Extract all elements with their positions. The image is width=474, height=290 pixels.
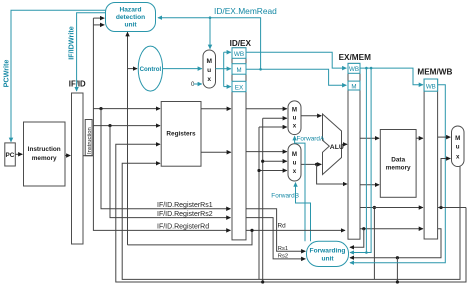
wire IF/ID.RegisterRs2 [155,217,230,219]
wire ForwardB from forwarding unit [296,183,311,242]
wire hazard input lower [93,24,104,26]
wire instruction bus vertical [92,18,94,156]
svg-text:IF/IDWrite: IF/IDWrite [66,26,75,59]
wire ALU result to EX/MEM [342,143,348,145]
svg-text:unit: unit [124,22,137,29]
wire data memory read data to MEM/WB [416,137,423,139]
instruction memory [24,122,66,186]
wire stall mux to WB/M/EX bracket [216,68,224,70]
svg-text:IF/ID.RegisterRs2: IF/ID.RegisterRs2 [157,211,213,218]
wire EX/MEM RegWrite to forwarding unit [365,68,367,252]
svg-text:Control: Control [140,66,162,73]
junction EX/MEM RegWrite joins WB feedback [365,251,368,254]
svg-text:Hazard: Hazard [120,7,142,14]
junction final mux input tap [439,206,442,209]
junction forward 2 on write back bus [261,280,264,283]
wire ID/EX WB to EX/MEM WB [246,52,346,68]
wire opcode into control [128,68,138,70]
svg-text:Rs2: Rs2 [278,254,288,260]
junction MemRead on M line [259,68,262,71]
svg-text:x: x [207,76,211,83]
junction EX/MEM Rd branch [362,227,365,230]
junction second teal tap [370,67,373,70]
forwarding unit [307,241,349,266]
ALU [323,114,344,175]
wire forward bus 1 vertical [258,127,260,279]
MEM/WB WB box [424,79,438,91]
wire ID/EX read data 2 to mux B [246,151,287,153]
wire B value to EX/MEM write data [317,164,347,184]
PC register [5,143,16,166]
IF/ID pipeline register [72,93,84,244]
svg-text:WB: WB [234,51,244,58]
svg-text:u: u [456,144,460,151]
junction rs2 [108,124,111,127]
junction write register branch [396,256,399,259]
svg-text:Instruction: Instruction [28,146,61,153]
wire mux A to ALU [301,115,321,117]
wire bracket to M [224,68,231,70]
EX/MEM pipeline register [348,63,360,239]
wire MEM/WB ALU result out [438,207,466,209]
wire EX/MEM WB to MEM/WB WB [360,68,423,85]
wire ID/EX M to EX/MEM M [246,69,346,85]
junction B value tap [315,163,318,166]
wire write register feedback [116,144,466,282]
svg-text:ForwardB: ForwardB [271,192,299,199]
wire registers read data 1 to ID/EX [201,108,231,110]
wire EX/MEM Rd to MEM/WB [360,228,423,230]
svg-text:Rd: Rd [278,223,287,230]
svg-text:detection: detection [116,14,145,21]
wire PCWrite [11,10,106,142]
ID/EX EX box [232,81,246,91]
wire mux B to ALU [301,163,321,165]
wire control to stall mux [163,68,202,70]
svg-text:x: x [456,154,460,161]
EX/MEM WB box [348,63,360,73]
ID/EX pipeline register [232,48,246,240]
wire forward 1 to mux A input 3 [259,126,287,128]
wire EX/MEM ALU result to data memory address [360,137,379,139]
ID/EX WB box [232,48,246,59]
wire MEM/WB Rd to forwarding unit [350,229,441,258]
svg-text:IF/ID.RegisterRs1: IF/ID.RegisterRs1 [157,202,213,209]
wire bracket vertical [223,52,225,86]
svg-text:Instruction: Instruction [87,127,93,154]
wire zero into mux [194,83,202,85]
wire rs1 down to IF/ID.RegisterRs1 row [101,109,155,209]
svg-text:Forwarding: Forwarding [310,247,346,254]
svg-text:ForwardA: ForwardA [297,135,325,142]
svg-text:ALU: ALU [330,144,344,151]
wire EX/MEM ALU result to MEM/WB [360,207,423,209]
wire forward 1 to mux B input 3 [259,170,287,172]
wire read register 1 [93,108,160,110]
hazard detection unit [106,3,156,32]
wire second teal to forwarding unit [350,68,371,252]
svg-text:M: M [351,83,356,90]
junction EX/MEM RegWrite tap [365,67,368,70]
wire MEM/WB read data to final mux [438,136,451,138]
stall mux [203,50,216,88]
junction forward 1 at mux B branch [257,169,260,172]
forwarding mux A [288,101,301,135]
wire IF/IDWrite [77,13,106,91]
wire write register branch down [396,258,398,282]
svg-text:memory: memory [386,165,411,172]
svg-text:IF/ID: IF/ID [69,79,86,88]
wire read register 2 [93,125,160,127]
wire EX/MEM value tap down [373,208,375,280]
svg-text:EX/MEM: EX/MEM [339,53,371,62]
svg-text:x: x [293,168,297,175]
wire MEM/WB ALU result to final mux [441,159,450,208]
MEM/WB pipeline register [424,79,438,239]
svg-text:unit: unit [321,255,334,262]
final mux [452,126,465,167]
svg-text:Registers: Registers [166,131,196,138]
svg-text:ID/EX.MemRead: ID/EX.MemRead [214,6,277,16]
svg-text:Rs1: Rs1 [278,246,288,252]
svg-text:WB: WB [349,66,359,73]
wire hazard unit to stall mux [209,18,211,49]
wire instruction memory to IF/ID [65,155,70,157]
svg-text:u: u [207,67,211,74]
svg-text:u: u [293,115,297,122]
svg-text:IF/ID.RegisterRd: IF/ID.RegisterRd [157,223,209,230]
control ellipse [138,46,162,91]
wire Rd wrap to control column [128,230,253,245]
wire IF/ID.RegisterRs1 [155,208,230,210]
data memory [380,130,416,198]
wire rs2 down to IF/ID.RegisterRs2 row [110,126,155,218]
svg-text:M: M [206,58,212,65]
svg-text:x: x [293,123,297,130]
wire bracket to WB [224,51,231,53]
wire hazard unit vertical to control row [127,32,129,245]
wire Rd through EX stage [246,229,345,231]
svg-text:M: M [236,67,241,74]
wire hazard input upper [93,17,104,19]
svg-text:M: M [292,107,297,114]
svg-text:memory: memory [32,155,57,162]
ID/EX M box [232,64,246,74]
junction rs1 [99,107,102,110]
wire IF/ID to instruction bus [83,155,93,157]
svg-text:M: M [292,151,297,158]
svg-text:PCWrite: PCWrite [1,60,10,88]
svg-text:WB: WB [426,83,436,90]
svg-text:u: u [293,160,297,167]
wire bracket to EX [224,86,231,88]
svg-text:0: 0 [191,82,195,88]
wire ID/EX read data 1 to mux A [246,108,287,110]
wire ID/EX.MemRead to hazard unit [158,18,261,70]
wire write data feedback from final mux [122,163,460,279]
junction stall mux tap [209,16,212,19]
wire forward bus 2 vertical [262,118,264,282]
svg-text:M: M [455,135,460,142]
instruction bus label box [85,120,93,156]
wire registers read data 2 to ID/EX [201,151,231,153]
wire EX/MEM Rd to forwarding unit [350,229,364,248]
wire PC to instruction memory [15,153,22,155]
forwarding mux B [288,144,301,181]
wire instruction bus down to Rd row [93,156,155,231]
svg-text:PC: PC [6,152,15,159]
svg-text:EX: EX [235,85,244,92]
EX/MEM M box [348,81,360,90]
junction Rd branch down [250,229,253,232]
wire Rs1 to forwarding unit [246,209,305,252]
wire Rs2 to forwarding unit [246,218,305,259]
wire forward 2 to mux A input 2 [263,117,287,119]
wire forward 2 to mux B input 2 [263,160,287,162]
svg-text:ID/EX: ID/EX [230,39,252,48]
wire EX/MEM B value to data memory write data [360,184,379,186]
wire IF/ID.RegisterRd [155,229,230,231]
svg-text:Data: Data [391,156,405,163]
svg-text:MEM/WB: MEM/WB [417,68,452,77]
junction on write register bus [396,280,399,283]
wire ForwardA from forwarding unit [295,136,305,241]
junction forward 2 at mux B branch [261,160,264,163]
wire MEM/WB WB control down to forwarding unit [350,85,445,263]
registers file [161,102,201,167]
junction EX/MEM forward tap [373,206,376,209]
